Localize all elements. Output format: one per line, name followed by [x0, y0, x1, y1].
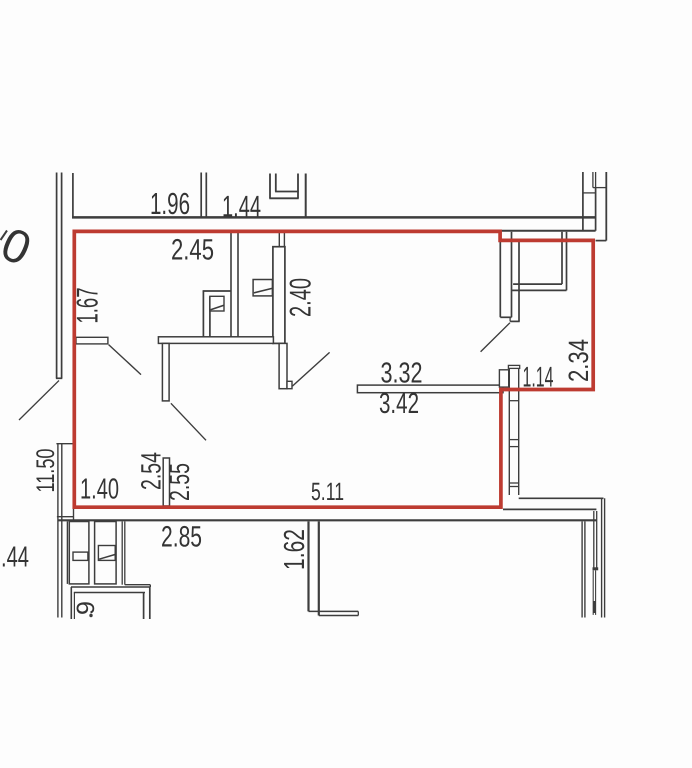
svg-text:2.34: 2.34: [563, 339, 594, 382]
svg-text:1.44: 1.44: [222, 191, 261, 224]
svg-text:2.40: 2.40: [285, 278, 318, 317]
svg-text:1.62: 1.62: [279, 529, 311, 570]
svg-text:5.11: 5.11: [311, 478, 344, 506]
svg-text:2.45: 2.45: [171, 234, 214, 267]
svg-text:2.54: 2.54: [136, 452, 167, 490]
svg-text:2.55: 2.55: [164, 463, 195, 501]
svg-text:11.50: 11.50: [32, 449, 60, 493]
svg-text:1.96: 1.96: [150, 187, 190, 221]
svg-text:3.32: 3.32: [381, 358, 423, 390]
svg-text:.44: .44: [1, 542, 29, 574]
svg-text:1.40: 1.40: [80, 474, 119, 506]
svg-text:1.67: 1.67: [72, 288, 105, 324]
svg-text:1.14: 1.14: [523, 362, 554, 394]
svg-text:3.42: 3.42: [379, 388, 419, 420]
svg-text:9: 9: [72, 601, 100, 615]
svg-text:2.85: 2.85: [161, 521, 202, 554]
